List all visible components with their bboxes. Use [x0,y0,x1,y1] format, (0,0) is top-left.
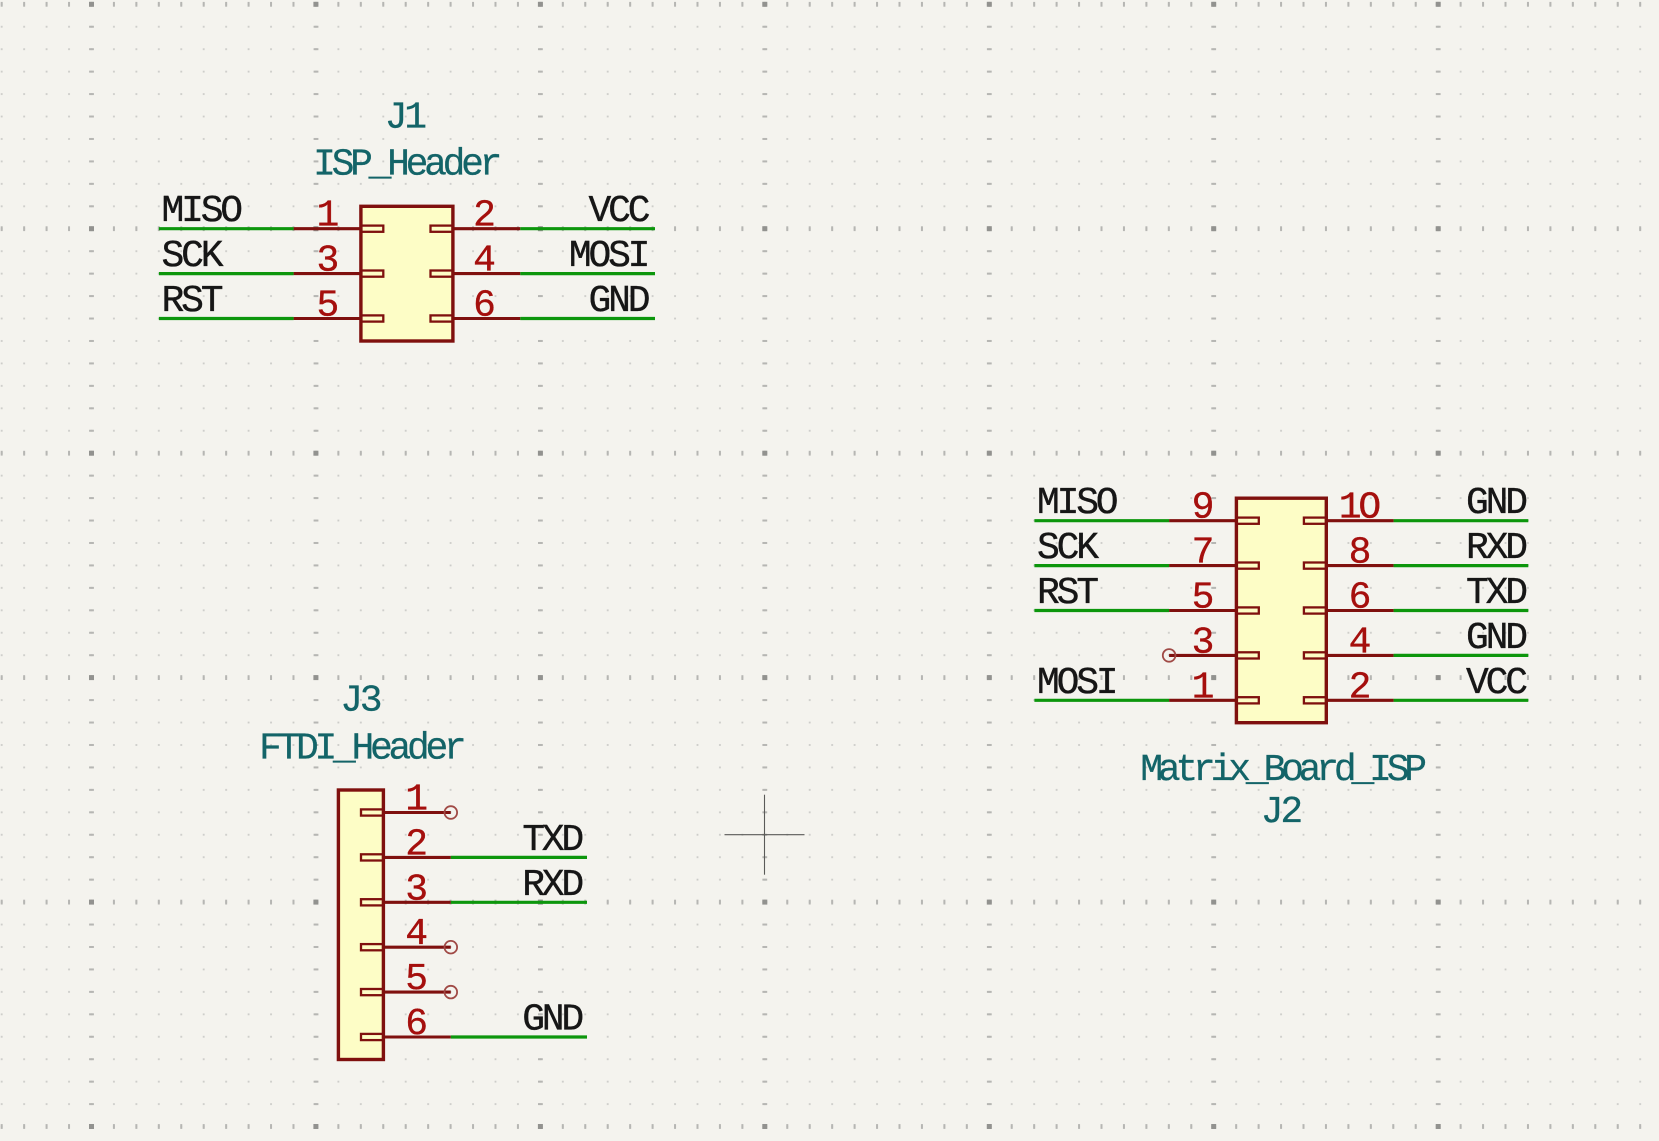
svg-text:2: 2 [473,195,494,238]
J2 pin 7 [1169,532,1259,575]
wire MOSI from J1 [520,272,655,275]
wire GND from J3 [451,1035,587,1038]
J2 pin 2 [1304,666,1394,709]
unconnected pin end circle J3 pin 5 [445,986,458,999]
J2 pin 3 [1169,621,1259,664]
wire GND from J2 [1394,519,1529,522]
svg-text:2: 2 [405,823,426,866]
svg-text:RST: RST [1037,572,1098,615]
connector J3 body [338,790,383,1060]
J3 pin 5 [361,958,451,1001]
J2 pin 8 [1304,532,1394,575]
connector J2 body [1236,498,1326,723]
svg-text:1: 1 [1192,666,1213,709]
J2 pin 1 [1169,666,1259,709]
wire SCK to J1 [159,272,294,275]
svg-text:9: 9 [1192,487,1213,530]
svg-text:1: 1 [405,779,426,822]
J3 pin 4 [361,913,451,956]
wire MOSI to J2 [1034,699,1169,702]
wire MISO to J1 [159,227,294,230]
unconnected pin end circle J3 pin 1 [445,806,458,819]
svg-text:GND: GND [1466,617,1526,660]
svg-text:SCK: SCK [162,235,224,278]
wire GND from J2 [1394,654,1529,657]
svg-text:J3: J3 [340,680,381,723]
J3 pin 1 [361,779,451,822]
wire GND from J1 [520,317,655,320]
svg-text:3: 3 [1192,621,1213,664]
svg-text:7: 7 [1192,532,1212,575]
J3 pin 3 [361,868,451,911]
svg-text:3: 3 [405,868,426,911]
J1 pin 4 [431,240,521,283]
svg-text:RST: RST [162,280,223,323]
wire VCC from J2 [1394,699,1529,702]
J3 pin 2 [361,823,451,866]
svg-text:GND: GND [522,999,582,1042]
svg-text:1O: 1O [1339,487,1380,530]
J2 pin 10 [1304,487,1394,530]
svg-text:RXD: RXD [522,864,582,907]
svg-text:GND: GND [1466,482,1526,525]
svg-text:VCC: VCC [588,190,649,233]
J1 pin 2 [431,195,521,238]
svg-text:4: 4 [1349,621,1370,664]
wire MISO to J2 [1034,519,1169,522]
J2 pin 9 [1169,487,1259,530]
svg-text:MISO: MISO [162,190,242,233]
connector J1 body [361,206,453,341]
svg-text:8: 8 [1349,532,1370,575]
svg-text:6: 6 [405,1003,426,1046]
svg-text:5: 5 [405,958,426,1001]
svg-text:TXD: TXD [522,819,582,862]
svg-text:MOSI: MOSI [1037,662,1116,705]
svg-text:3: 3 [316,240,337,283]
wire RST to J1 [159,317,294,320]
svg-text:SCK: SCK [1037,527,1099,570]
svg-text:MOSI: MOSI [569,235,648,278]
J1 pin 5 [294,285,384,328]
svg-text:TXD: TXD [1466,572,1526,615]
svg-text:4: 4 [473,240,494,283]
wire SCK to J2 [1034,564,1169,567]
svg-text:J1: J1 [385,97,426,140]
J2 pin 5 [1169,577,1259,620]
J1 pin 3 [294,240,384,283]
svg-text:5: 5 [1192,577,1213,620]
J2 pin 4 [1304,621,1394,664]
svg-text:6: 6 [473,285,494,328]
svg-text:VCC: VCC [1466,662,1527,705]
svg-text:GND: GND [588,280,648,323]
wire VCC from J1 [520,227,655,230]
J3 pin 6 [361,1003,451,1046]
wire TXD from J2 [1394,609,1529,612]
J2 pin 6 [1304,577,1394,620]
unconnected pin end circle J2 pin 3 [1163,649,1176,662]
svg-text:RXD: RXD [1466,527,1526,570]
J1 pin 6 [431,285,521,328]
svg-text:2: 2 [1349,666,1370,709]
svg-text:MISO: MISO [1037,482,1117,525]
svg-text:J2: J2 [1261,791,1302,834]
J1 pin 1 [294,195,384,238]
svg-text:FTDI_Header: FTDI_Header [259,727,464,770]
wire RXD from J2 [1394,564,1529,567]
svg-text:ISP_Header: ISP_Header [313,144,500,187]
wire RST to J2 [1034,609,1169,612]
svg-text:4: 4 [405,913,426,956]
svg-text:5: 5 [316,285,337,328]
svg-text:6: 6 [1349,577,1370,620]
wire RXD from J3 [451,901,587,904]
svg-text:1: 1 [316,195,337,238]
svg-text:Matrix_Board_ISP: Matrix_Board_ISP [1140,749,1425,792]
grid origin cross marker [725,795,805,875]
unconnected pin end circle J3 pin 4 [445,941,458,954]
wire TXD from J3 [451,856,587,859]
